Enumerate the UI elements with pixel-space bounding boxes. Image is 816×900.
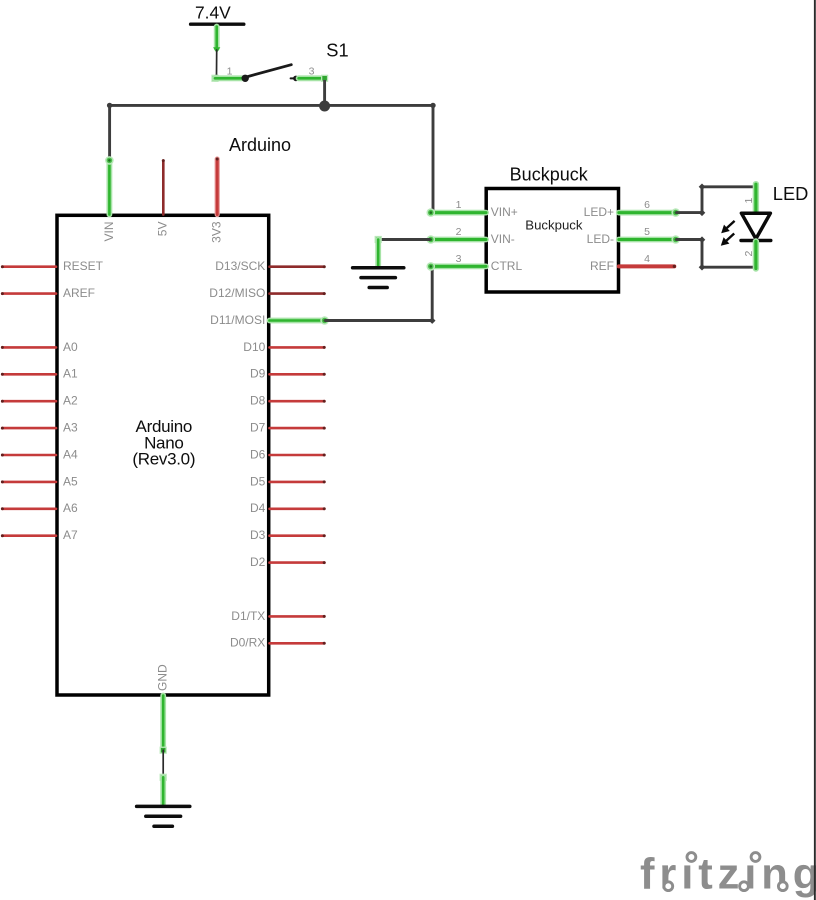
svg-text:Buckpuck: Buckpuck [510,165,589,185]
svg-text:VIN+: VIN+ [491,205,518,219]
arduino pin 5V [162,161,165,215]
power supply pin leg [214,27,220,49]
svg-text:A1: A1 [63,367,78,381]
svg-text:Buckpuck: Buckpuck [525,217,583,232]
svg-text:D13/SCK: D13/SCK [215,259,265,273]
svg-text:VIN: VIN [102,222,116,242]
buckpuck pin 5 LED- leg [619,237,676,243]
svg-text:Arduino: Arduino [229,135,291,155]
svg-text:1: 1 [456,199,462,211]
wire switch to junction [323,80,326,106]
LED light arrow 1 [727,221,735,228]
svg-text:LED-: LED- [587,232,614,246]
arduino pin D6 [270,454,325,457]
svg-text:A0: A0 [63,340,78,354]
svg-text:S1: S1 [326,40,348,61]
arduino pin D12/MISO [270,292,325,295]
arduino pin D7 [270,427,325,430]
arduino pin GND leg [160,696,166,751]
arduino pin D5 [270,481,325,484]
svg-text:CTRL: CTRL [491,259,523,273]
svg-text:D5: D5 [250,474,266,488]
wire D11/MOSI to CTRL [325,267,433,321]
svg-text:D9: D9 [250,367,266,381]
arduino pin AREF [2,292,56,295]
arduino pin A0 [2,346,56,349]
arduino pin A5 [2,481,56,484]
arduino pin RESET [2,265,56,268]
main horizontal wire [110,104,433,107]
switch S1 pin 1 leg [215,75,242,81]
svg-text:(Rev3.0): (Rev3.0) [132,450,195,469]
svg-text:D0/RX: D0/RX [230,636,265,650]
arduino pin A6 [2,507,56,510]
arduino pin D9 [270,373,325,376]
LED pin 2 leg [753,242,759,269]
wire GND to ground [160,747,167,754]
arduino pin 3V3 [215,159,220,215]
svg-text:1: 1 [227,66,233,78]
junction node [319,101,330,112]
buckpuck pin 4 REF [619,264,675,268]
LED pin 1 leg [753,184,759,213]
wire LED- to LED cathode [676,240,755,268]
svg-text:REF: REF [590,259,614,273]
svg-text:GND: GND [156,664,170,691]
svg-text:3: 3 [456,253,462,265]
LED D1 cathode bar [741,239,771,242]
switch S1 pin 3 contact [291,77,296,79]
arduino pin A2 [2,400,56,403]
svg-text:D10: D10 [243,340,265,354]
ground symbol GND1 [137,805,190,809]
buckpuck pin 3 CTRL leg [431,263,486,269]
switch S1 pin 3 leg [299,75,325,81]
wire to arduino VIN [108,105,111,159]
arduino pin D13/SCK [270,265,325,268]
buckpuck pin 6 LED+ leg [619,210,676,216]
window edge [814,0,816,900]
svg-text:5V: 5V [156,222,170,237]
svg-text:4: 4 [644,253,650,265]
svg-text:D4: D4 [250,501,266,515]
power supply 7.4V bar [191,23,244,26]
arduino pin D10 [270,346,325,349]
switch S1 lever [248,65,292,77]
svg-text:A2: A2 [63,394,78,408]
arduino pin D0/RX [270,642,325,645]
svg-text:A4: A4 [63,447,78,461]
buckpuck pin 1 VIN+ leg [431,210,486,216]
svg-text:7.4V: 7.4V [195,2,231,22]
svg-text:D1/TX: D1/TX [231,609,265,623]
arduino pin VIN leg [107,161,113,215]
svg-text:3V3: 3V3 [210,221,224,243]
svg-text:D3: D3 [250,528,266,542]
arduino pin A7 [2,534,56,537]
svg-text:6: 6 [644,199,650,211]
arduino pin A1 [2,373,56,376]
arduino nano U1 body [57,215,269,695]
svg-text:2: 2 [743,251,755,257]
arduino pin D1/TX [270,615,325,618]
svg-text:D2: D2 [250,555,266,569]
LED light arrow 2 [726,234,734,241]
svg-text:LED: LED [773,183,809,204]
svg-text:A7: A7 [63,528,78,542]
arduino pin A4 [2,454,56,457]
buckpuck pin 2 VIN- leg [431,237,486,243]
arduino pin D11/MOSI [270,318,325,324]
arduino pin D4 [270,507,325,510]
svg-text:D6: D6 [250,447,266,461]
ground symbol GND2 leg [375,240,381,266]
svg-text:VIN-: VIN- [491,232,515,246]
arduino pin A3 [2,427,56,430]
arduino pin D2 [270,561,325,564]
switch S1 pivot [242,75,249,82]
svg-text:D7: D7 [250,421,266,435]
wire supply to switch [216,50,218,75]
svg-text:A3: A3 [63,421,78,435]
svg-text:A5: A5 [63,474,78,488]
buckpuck U2 body [486,189,618,293]
wire VIN- to ground [378,238,430,241]
svg-text:2: 2 [456,226,462,238]
wire LED+ to LED anode [676,187,755,213]
svg-text:AREF: AREF [63,286,95,300]
svg-text:D12/MISO: D12/MISO [209,286,265,300]
svg-text:5: 5 [644,226,650,238]
svg-text:RESET: RESET [63,259,104,273]
arduino pin D8 [270,400,325,403]
svg-text:D8: D8 [250,394,266,408]
ground symbol GND1 leg [160,777,166,804]
arduino pin D3 [270,534,325,537]
svg-text:LED+: LED+ [584,205,614,219]
svg-text:A6: A6 [63,501,78,515]
svg-text:1: 1 [743,198,755,204]
LED D1 triangle [741,213,770,239]
ground symbol GND2 [353,266,404,270]
wire to buckpuck VIN+ [432,105,435,212]
svg-text:D11/MOSI: D11/MOSI [210,313,265,327]
